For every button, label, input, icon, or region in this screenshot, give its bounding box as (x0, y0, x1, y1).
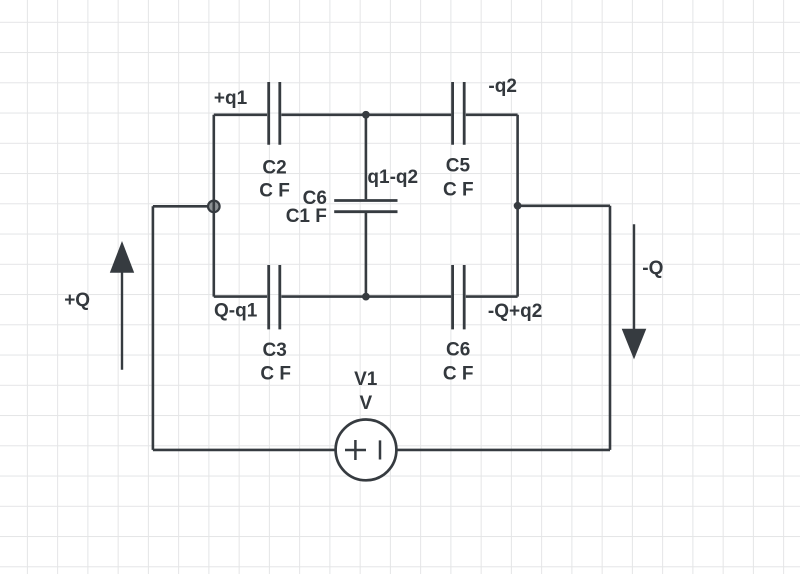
svg-text:Q-q1: Q-q1 (214, 301, 258, 322)
svg-text:C F: C F (443, 364, 474, 385)
svg-text:-Q+q2: -Q+q2 (488, 301, 542, 322)
junction dot bottom middle (362, 293, 370, 301)
svg-text:C F: C F (260, 363, 291, 384)
svg-text:C5: C5 (446, 155, 471, 176)
junction dot right (514, 202, 522, 210)
wire outer left vertical (152, 206, 155, 450)
svg-text:C F: C F (259, 181, 290, 202)
wire top rail left segment (214, 114, 267, 117)
capacitor C3 (269, 265, 280, 329)
wire node A to outer left (153, 205, 207, 208)
wire left branch vertical (213, 115, 216, 297)
wire bottom inner rail (214, 295, 518, 298)
svg-text:V: V (360, 393, 373, 414)
wire bottom rail right of source (396, 449, 610, 452)
svg-text:-q2: -q2 (488, 76, 517, 97)
capacitor C2 (269, 82, 280, 145)
wire middle vertical lower (365, 213, 368, 297)
svg-text:C F: C F (443, 179, 474, 200)
arrow +Q (110, 241, 134, 370)
svg-text:C1 F: C1 F (286, 206, 327, 227)
svg-text:V1: V1 (354, 369, 378, 390)
svg-text:C2: C2 (262, 157, 286, 178)
wire middle vertical upper (365, 115, 368, 199)
svg-text:C6: C6 (446, 340, 470, 361)
capacitor C1 middle horizontal (334, 201, 397, 212)
arrow -Q (622, 224, 647, 359)
svg-text:+Q: +Q (64, 290, 90, 311)
wire right branch vertical (516, 115, 519, 297)
node A gray terminal (208, 201, 220, 213)
wire top rail right segment (281, 114, 517, 117)
svg-text:+q1: +q1 (214, 88, 248, 109)
svg-text:C3: C3 (263, 340, 287, 361)
junction dot top middle (362, 111, 370, 119)
voltage source V1 (336, 420, 397, 481)
wire bottom rail left of source (153, 449, 336, 452)
capacitor C6 bottom right (453, 265, 465, 329)
wire outer right vertical (609, 206, 612, 450)
wire right junction to outer right (518, 205, 610, 208)
svg-text:q1-q2: q1-q2 (367, 167, 418, 188)
svg-text:-Q: -Q (642, 258, 663, 279)
capacitor C5 (453, 82, 465, 145)
